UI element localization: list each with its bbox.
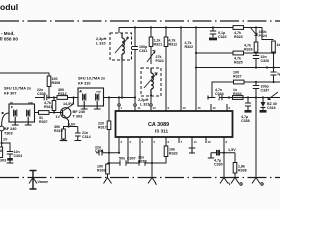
svg-text:R310: R310: [54, 129, 63, 133]
transistor collector wire: [64, 98, 74, 111]
trimmer P321: [150, 47, 152, 65]
filter KF307 label: [4, 87, 32, 96]
input terminal: [0, 126, 4, 131]
resistor R333: [106, 164, 110, 174]
capacitor C338 electrolytic: [245, 98, 251, 111]
resonator 1 of KF307: [14, 110, 17, 117]
svg-text:L 321: L 321: [140, 103, 150, 107]
transistor emitter wire: [64, 115, 69, 127]
wire input bend: [2, 113, 9, 126]
subtitle "- Mod.": [1, 31, 15, 36]
capacitor C308: [35, 95, 49, 101]
svg-text:15: 15: [198, 106, 202, 110]
rail A y=67.5: [196, 67, 280, 69]
emitter node wire: [67, 125, 69, 127]
resistor R311 vertical: [53, 111, 55, 113]
wire vertical x196 with branches: [195, 28, 197, 112]
zener diode D316: [262, 98, 264, 111]
resistor R310: [62, 129, 66, 139]
svg-text:R307: R307: [39, 120, 48, 124]
svg-text:C322: C322: [218, 35, 227, 39]
wire branch into IC pin1 with socket: [118, 98, 120, 112]
node junction at R308/C308: [48, 96, 50, 98]
resistor R317 vertical: [108, 98, 110, 122]
svg-text:C310: C310: [138, 160, 147, 164]
svg-text:8: 8: [0, 149, 2, 153]
svg-text:1μ: 1μ: [277, 72, 280, 76]
filter KF307 box: [9, 104, 35, 122]
capacitor C330 electrolytic: [211, 150, 235, 156]
svg-text:R325: R325: [234, 61, 243, 65]
svg-text:BF 240: BF 240: [4, 127, 16, 131]
inductor L321 label: [138, 98, 150, 107]
svg-text:IS 311: IS 311: [155, 129, 168, 134]
ground crow right vertical: [252, 178, 260, 184]
svg-text:P324: P324: [259, 34, 267, 38]
trimmer P324: [255, 28, 257, 43]
svg-text:1V: 1V: [3, 138, 8, 142]
filter KF310 label: [78, 77, 106, 86]
svg-text:odul: odul: [0, 2, 18, 12]
capacitor C306: [74, 127, 81, 141]
svg-text:C304: C304: [14, 154, 23, 158]
svg-text:C307: C307: [127, 157, 136, 161]
ground of resonator1 KF307: [12, 117, 19, 126]
junction dots on top rail: [134, 26, 136, 28]
svg-text:C301: C301: [95, 149, 104, 153]
ground of resonator2 KF307: [25, 117, 32, 126]
svg-text:12: 12: [213, 106, 217, 110]
wire supply line left y=73: [0, 73, 49, 76]
wire bottom bus y=163: [109, 160, 152, 166]
svg-text:1,5V: 1,5V: [228, 148, 236, 152]
svg-text:C308: C308: [37, 92, 46, 96]
capacitor C310 label: [138, 156, 147, 164]
svg-text:C334: C334: [215, 92, 224, 96]
wire left edge vertical: [1, 131, 3, 147]
ground crow pin5: [148, 178, 156, 184]
svg-text:R338: R338: [238, 169, 247, 173]
svg-text:L 310: L 310: [96, 42, 106, 46]
label 1V: [56, 115, 61, 119]
feedthrough terminal Vanne: [30, 171, 37, 190]
label 14,5V: [63, 102, 73, 106]
svg-text:R308: R308: [52, 81, 61, 85]
svg-text:R332: R332: [169, 152, 178, 156]
wire L321 to IC pin with socket: [150, 96, 152, 111]
ground crow R338: [231, 178, 239, 184]
ground of resonator2 KF310: [94, 101, 101, 110]
svg-text:11: 11: [138, 106, 141, 110]
svg-text:C338: C338: [241, 119, 250, 123]
svg-text:R312: R312: [169, 43, 178, 47]
inductor L310 coil: [122, 33, 124, 60]
svg-text:C314: C314: [82, 135, 91, 139]
wire long vertical to bottom ground: [255, 98, 257, 178]
svg-text:C311: C311: [139, 49, 147, 53]
capacitor C334: [219, 95, 222, 101]
svg-text:T303: T303: [4, 132, 13, 136]
chassis ground pin14: [189, 148, 196, 153]
node collector junction: [72, 96, 74, 98]
wire L310 top to rail: [118, 28, 120, 34]
wire node below IC: [108, 152, 110, 154]
module boundary dash-dot line bottom: [0, 177, 280, 179]
svg-text:CA 3089: CA 3089: [148, 122, 169, 128]
resonator 2 of KF310: [96, 94, 99, 101]
svg-text:R322: R322: [185, 45, 194, 49]
svg-text:14: 14: [194, 140, 198, 144]
svg-text:R317: R317: [98, 126, 107, 130]
module boundary dash-dot line top: [0, 20, 280, 22]
supply rail B y=53: [196, 52, 233, 54]
capacitor C301 below IC left: [96, 150, 119, 156]
capacitor C326: [253, 53, 259, 69]
capacitor C322: [210, 28, 216, 38]
rail R327 y=80.5: [212, 82, 234, 98]
resistor R325 horizontal in rail B: [233, 51, 244, 55]
svg-text:2,2μH: 2,2μH: [138, 98, 149, 102]
capacitor C311: [132, 28, 138, 112]
wire audio line y=97.5 right: [208, 97, 280, 99]
inductor L310 dashed box: [110, 33, 132, 60]
resistor R323 horizontal in rail: [233, 26, 244, 30]
ground crow R333: [104, 178, 112, 184]
resonator 1 of KF310: [83, 94, 86, 101]
svg-text:out: out: [96, 90, 101, 94]
svg-text:R333: R333: [97, 169, 106, 173]
svg-text:SFU 10,7MA 2x: SFU 10,7MA 2x: [78, 77, 106, 81]
svg-text:in: in: [10, 100, 13, 104]
resistor R303 half cropped: [0, 147, 3, 158]
junction dots on audio rail: [247, 96, 249, 98]
capacitor C307 label: [119, 157, 136, 161]
resistor R332: [164, 146, 168, 157]
svg-text:R323: R323: [234, 35, 243, 39]
capacitor C337: [253, 82, 259, 98]
supply rail top y=27.5: [119, 27, 233, 29]
IC bottom pin stubs: [119, 137, 224, 178]
resistor R308: [47, 76, 51, 87]
svg-text:50n: 50n: [119, 157, 125, 161]
resonator 2 of KF307: [27, 110, 30, 117]
transistor T303: [60, 108, 70, 118]
left edge transistor label block: [3, 127, 16, 142]
svg-text:C330: C330: [214, 163, 223, 167]
ground crow pin8: [220, 153, 228, 184]
resistor R307 horizontal: [35, 112, 39, 114]
svg-text:out: out: [28, 100, 33, 104]
svg-text:13: 13: [153, 106, 157, 110]
potentiometer wiper arrow right: [268, 92, 278, 100]
node input junction: [1, 112, 3, 114]
svg-text:1k: 1k: [277, 43, 281, 47]
resistor R309 horizontal: [49, 97, 57, 99]
svg-text:1V: 1V: [56, 115, 61, 119]
svg-text:C326: C326: [261, 59, 270, 63]
svg-text:303: 303: [0, 159, 6, 163]
inductor L321 coil: [151, 68, 153, 96]
svg-text:BF 240: BF 240: [73, 110, 85, 114]
inductor L321 dashed box: [141, 68, 161, 96]
svg-text:C316: C316: [267, 106, 276, 110]
svg-text:KF 307: KF 307: [4, 92, 16, 96]
svg-text:R326: R326: [244, 48, 253, 52]
IC top pin stubs: [166, 104, 227, 111]
ground of resonator1 KF310: [81, 101, 88, 110]
resistor R312 vertical: [165, 28, 167, 38]
resistor R321 vertical: [150, 28, 152, 38]
resistor R322 vertical: [180, 28, 182, 112]
svg-text:Vanne: Vanne: [38, 180, 49, 184]
svg-text:P321: P321: [156, 59, 164, 63]
resistor R338: [234, 153, 236, 163]
resistor R335 vertical right edge: [272, 41, 276, 52]
svg-text:SFU 10,7MA 2x: SFU 10,7MA 2x: [4, 87, 32, 91]
svg-text:ll 056 00: ll 056 00: [0, 37, 18, 42]
svg-text:2,3μH: 2,3μH: [96, 37, 107, 41]
svg-text:KF 310: KF 310: [78, 82, 90, 86]
small circle marks: [240, 183, 242, 185]
label 1,5V: [228, 148, 236, 152]
svg-text:R311: R311: [44, 105, 52, 109]
filter KF310 box: [78, 88, 104, 106]
svg-text:R334: R334: [233, 92, 242, 96]
svg-text:T 303: T 303: [73, 115, 83, 119]
svg-text:10: 10: [183, 106, 187, 110]
wire R308 down to node: [48, 87, 50, 98]
resistor R334 horizontal: [233, 96, 244, 100]
wire L310 bottom down to output rail: [121, 60, 123, 98]
svg-text:R312: R312: [58, 92, 67, 96]
resistor R326 vertical: [254, 42, 258, 53]
svg-text:R327: R327: [233, 75, 242, 79]
svg-text:10: 10: [208, 140, 212, 144]
svg-text:C337: C337: [261, 89, 270, 93]
title text "odul": [0, 2, 18, 12]
ground of R310: [60, 139, 67, 141]
svg-text:- Mod.: - Mod.: [1, 31, 15, 36]
chassis ground left of C330: [208, 153, 214, 158]
capacitor C304: [2, 143, 14, 158]
part number "311 056 00": [0, 37, 18, 42]
capacitor C335 right edge: [271, 53, 277, 82]
wire KF310 output rail: [104, 97, 136, 99]
inductor L310 label: [96, 37, 107, 46]
svg-text:R321: R321: [154, 43, 163, 47]
IC CA3089 box: [116, 111, 233, 137]
